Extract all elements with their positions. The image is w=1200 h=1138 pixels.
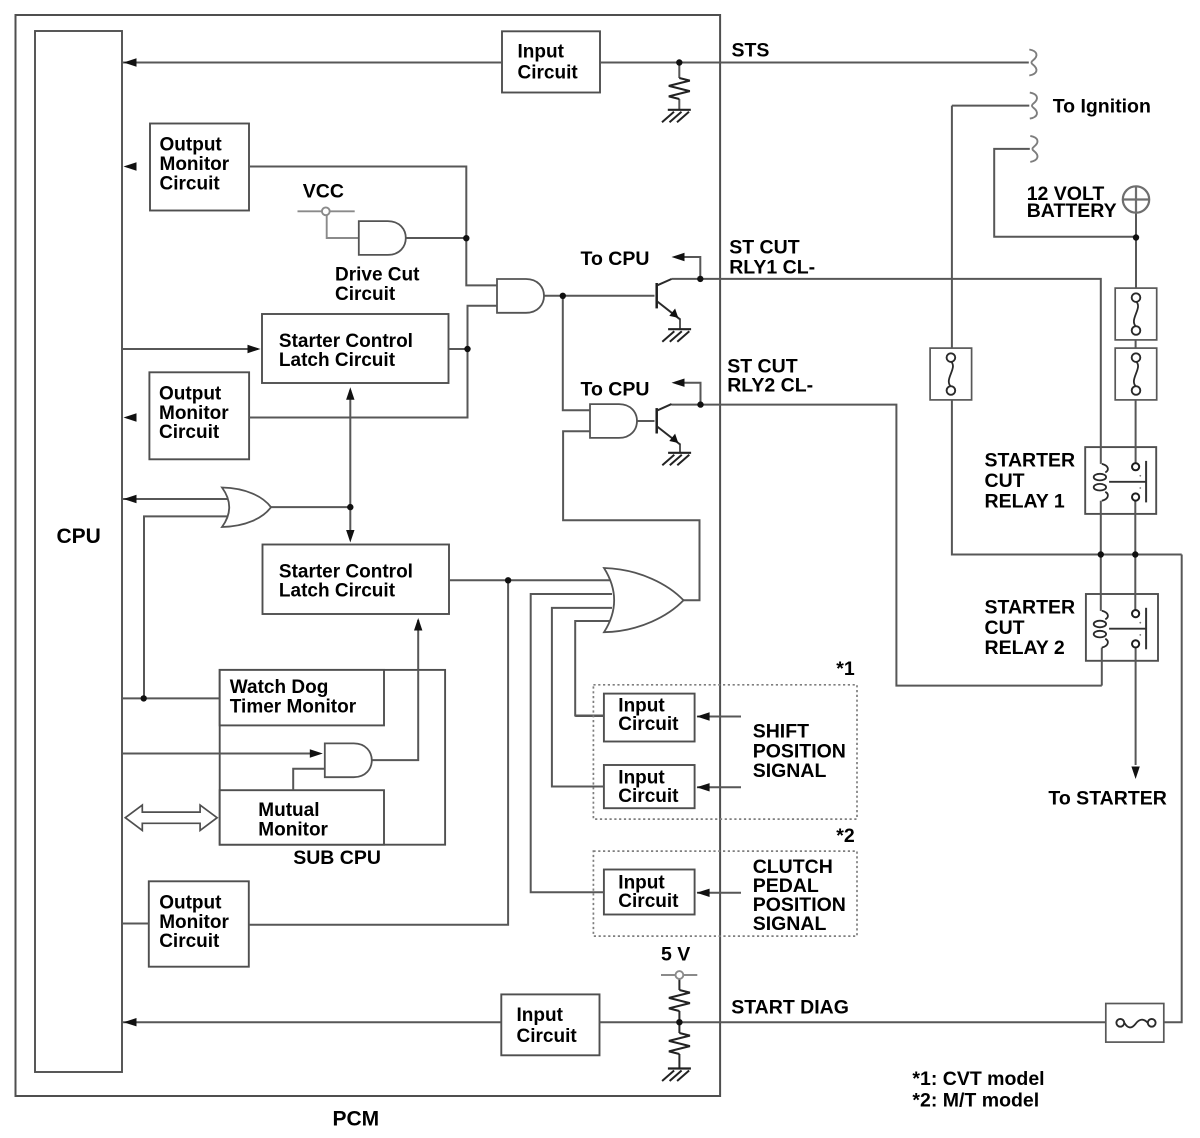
wire fuse to right edge riser (1152, 555, 1182, 1023)
wire battery to fuse stack (1135, 213, 1137, 463)
wire gate2 lower input bus (249, 306, 497, 418)
input circuit block (START DIAG, bottom) (501, 994, 599, 1055)
ground for R3 (662, 1069, 691, 1082)
svg-text:Circuit: Circuit (159, 931, 220, 952)
wire small OR output to latch junction (271, 506, 350, 508)
svg-text:To Ignition: To Ignition (1053, 96, 1151, 118)
svg-text:Timer Monitor: Timer Monitor (230, 696, 357, 717)
wire relay2 coil bottom continues (1101, 648, 1103, 686)
starter cut relay 2 box (1086, 594, 1158, 661)
arrowhead up into latch1 bottom (346, 387, 354, 400)
wire gate2 output to Q1 base (544, 295, 655, 297)
svg-text:Monitor: Monitor (159, 403, 229, 424)
arrowhead into input circuit B (697, 783, 710, 791)
output monitor circuit block 2 (149, 372, 249, 459)
svg-text:To CPU: To CPU (581, 379, 650, 401)
svg-text:SIGNAL: SIGNAL (753, 760, 827, 782)
wire AND4 output up into latch2 bottom (371, 620, 419, 760)
arrowhead down into latch2 top (346, 530, 354, 543)
svg-text:Circuit: Circuit (618, 786, 679, 807)
svg-text:Output: Output (159, 893, 222, 914)
wire relay2 contact to starter arrow (1135, 648, 1137, 765)
fuse F4 start diag (1106, 1004, 1164, 1043)
battery symbol 12V (1123, 186, 1149, 212)
AND gate U1 drive cut (359, 221, 406, 255)
svg-text:Circuit: Circuit (159, 422, 220, 443)
svg-text:*1: *1 (836, 658, 855, 680)
junction node AND1 out (463, 235, 469, 241)
svg-text:*2: *2 (836, 825, 855, 847)
wire OR input3 from shift input circuit B (552, 608, 612, 787)
arrowhead into input circuit A (697, 712, 710, 720)
wire AND1 output to junction (405, 237, 466, 239)
wire STS pulldown (678, 63, 680, 110)
svg-text:CUT: CUT (985, 617, 1025, 639)
svg-text:BATTERY: BATTERY (1027, 200, 1117, 222)
wire Q2 collector line ST CUT RLY2 CL- (672, 405, 1102, 686)
wire Q1 emitter to ground (679, 319, 681, 330)
bidirectional bus arrow CPU to SUB CPU (125, 805, 217, 830)
arrowhead into CPU from STS (124, 58, 137, 66)
starter cut relay 1 box (1085, 447, 1156, 514)
fuse F2 battery upper (1115, 288, 1157, 340)
arrowhead into input circuit C (697, 889, 710, 897)
wire Q2 to-CPU stub (678, 383, 701, 405)
wire OMC1 to vertical bus (249, 167, 497, 286)
junction node Q2 collector (697, 401, 703, 407)
AND gate U2 (497, 279, 544, 313)
5V terminal (676, 971, 684, 979)
ground for Q2 (662, 453, 691, 466)
arrowhead to CPU stub Q1 (672, 253, 685, 261)
VCC switch terminal (322, 207, 330, 215)
wire Q1 collector line ST CUT RLY1 CL- (672, 279, 1101, 464)
wire CPU to output monitor circuit 3 (122, 923, 149, 925)
transistor Q1 (657, 279, 680, 319)
dashed box MT model region (593, 851, 857, 936)
wire STS line from CPU to connector (123, 62, 1029, 64)
transistor Q2 (657, 404, 680, 444)
watch dog timer monitor block (220, 670, 384, 726)
OR gate U6 large (604, 568, 684, 632)
svg-text:Latch Circuit: Latch Circuit (279, 581, 396, 602)
wire clutch signal arrow C (697, 892, 741, 894)
wire junction up-arrow into latch1 bottom (349, 390, 351, 539)
CPU block (35, 31, 122, 1072)
svg-text:To CPU: To CPU (581, 248, 650, 270)
svg-text:Input: Input (517, 1005, 564, 1026)
SUB CPU enclosure (220, 670, 445, 845)
junction node watchdog (141, 695, 147, 701)
svg-text:Drive Cut: Drive Cut (335, 265, 420, 286)
svg-text:RLY1 CL-: RLY1 CL- (729, 257, 815, 279)
svg-text:Mutual: Mutual (258, 800, 319, 821)
svg-text:STS: STS (732, 40, 770, 62)
wire gate3 output to Q2 base (637, 420, 655, 422)
fuse F1 ignition (930, 348, 972, 400)
arrowhead to CPU stub Q2 (672, 379, 685, 387)
wire input circuit A left link (575, 715, 604, 717)
wire CPU arrow to starter control latch 1 (122, 348, 258, 350)
svg-text:CUT: CUT (985, 470, 1025, 492)
wire Q2 emitter to ground (679, 444, 681, 453)
svg-text:CPU: CPU (57, 525, 101, 548)
svg-text:RLY2 CL-: RLY2 CL- (727, 375, 813, 397)
resistor R1 STS pulldown (669, 78, 690, 99)
junction node rail coil (1098, 551, 1104, 557)
junction node start diag (676, 1019, 682, 1025)
wire mutual monitor to AND gate input (293, 769, 325, 791)
svg-text:RELAY 2: RELAY 2 (985, 637, 1065, 659)
wire battery branch from connector (994, 149, 1136, 237)
relay 1 internals coil and contact (1094, 461, 1146, 503)
relay 2 internals coil and contact (1094, 608, 1146, 650)
wire OR input1 bus down to OMC3 (249, 580, 508, 924)
wire small OR upper input to CPU (123, 498, 231, 500)
wire relay rail with relay drops (1101, 501, 1136, 611)
wire CPU to watchdog monitor (122, 697, 220, 699)
svg-text:Watch Dog: Watch Dog (230, 677, 329, 698)
junction node battery feed (1133, 234, 1139, 240)
svg-text:To STARTER: To STARTER (1048, 788, 1166, 810)
input circuit block B (shift position 2) (604, 765, 695, 808)
output monitor circuit block 1 (150, 124, 249, 211)
junction node STS (676, 59, 682, 65)
junction node gate2 out (560, 293, 566, 299)
svg-text:SIGNAL: SIGNAL (753, 913, 827, 935)
svg-text:Starter Control: Starter Control (279, 562, 413, 583)
svg-text:Circuit: Circuit (618, 714, 679, 735)
junction node OR input1 (505, 577, 511, 583)
mutual monitor block (220, 790, 384, 845)
wire VCC switch to AND1 input (327, 215, 359, 239)
svg-text:Input: Input (518, 42, 565, 63)
svg-text:Monitor: Monitor (160, 154, 230, 175)
svg-text:Latch Circuit: Latch Circuit (279, 350, 396, 371)
svg-text:SUB CPU: SUB CPU (293, 847, 381, 869)
svg-text:STARTER: STARTER (985, 450, 1076, 472)
svg-text:PCM: PCM (333, 1108, 380, 1131)
connector break battery branch (1030, 136, 1037, 162)
svg-text:Circuit: Circuit (518, 63, 579, 84)
arrowhead into CPU from OMC2 (124, 413, 137, 421)
junction node Q1 collector (697, 276, 703, 282)
svg-text:*1: CVT model: *1: CVT model (912, 1068, 1044, 1090)
svg-text:RELAY 1: RELAY 1 (985, 491, 1065, 513)
svg-text:Starter Control: Starter Control (279, 331, 413, 352)
svg-text:STARTER: STARTER (985, 597, 1076, 619)
ground for R1 (662, 110, 691, 123)
arrowhead up into latch2 bottom (414, 618, 422, 631)
input circuit block (STS, top) (502, 31, 600, 92)
wire OR input4 from shift input circuit A (575, 621, 612, 716)
starter control latch circuit block 1 (262, 314, 449, 383)
svg-text:Monitor: Monitor (258, 819, 328, 840)
output monitor circuit block 3 (149, 881, 249, 966)
wire latch2 output to OR input 1 (449, 579, 612, 581)
wire ignition feed down to fuse and rail (952, 106, 1182, 555)
OR gate U5 small (222, 488, 271, 528)
wire VCC terminal line right (330, 210, 355, 212)
AND gate U4 sub cpu (325, 743, 372, 777)
PCM enclosure box (16, 15, 721, 1096)
input circuit block A (shift position 1) (604, 694, 695, 742)
connector break STS (1029, 50, 1036, 76)
svg-text:POSITION: POSITION (753, 740, 846, 762)
svg-text:Output: Output (160, 135, 223, 156)
ground for Q1 (662, 329, 691, 342)
arrowhead down to starter (1131, 767, 1139, 780)
wire VCC terminal line left (298, 210, 323, 212)
junction node latch link (347, 504, 353, 510)
resistor R2 5V upper (669, 990, 690, 1011)
svg-text:Circuit: Circuit (517, 1026, 578, 1047)
arrowhead into CPU from OR gate (124, 495, 137, 503)
connector break to-ignition (1030, 93, 1037, 119)
svg-text:Circuit: Circuit (160, 173, 221, 194)
wire CPU arrow to sub-cpu AND gate (122, 753, 320, 755)
svg-text:Circuit: Circuit (618, 891, 679, 912)
junction node latch1 out (464, 346, 470, 352)
arrowhead into CPU from input circuit bottom (124, 1018, 137, 1026)
svg-text:START DIAG: START DIAG (731, 997, 849, 1019)
svg-text:ST CUT: ST CUT (729, 237, 800, 259)
svg-text:5 V: 5 V (661, 944, 690, 966)
input circuit block C (clutch pedal position) (604, 870, 695, 915)
svg-text:Monitor: Monitor (159, 912, 229, 933)
wire OR input2 from clutch input circuit (531, 594, 612, 892)
svg-text:SHIFT: SHIFT (753, 721, 809, 743)
arrowhead into AND4 (310, 749, 323, 757)
fuse F3 battery lower (1115, 348, 1157, 400)
wire shift signal arrow B (697, 786, 741, 788)
wire latch1 output to bus (449, 348, 468, 350)
starter control latch circuit block 2 (263, 545, 450, 615)
AND gate U3 (590, 404, 637, 438)
wire to-ignition line (952, 105, 1029, 107)
wire small OR lower input from watchdog node (144, 516, 231, 698)
wire gate2 output junction down to gate3 upper input (563, 296, 590, 410)
wire 5V pullup chain (661, 974, 697, 976)
svg-text:*2: M/T model: *2: M/T model (912, 1090, 1039, 1112)
wire shift signal arrow A (697, 716, 741, 718)
junction node rail contact (1132, 551, 1138, 557)
wire START DIAG line (123, 1021, 1120, 1023)
dashed box CVT model region (593, 685, 857, 819)
svg-text:Circuit: Circuit (335, 284, 396, 305)
wire Q1 to-CPU stub (678, 257, 700, 279)
svg-text:VCC: VCC (303, 181, 344, 203)
arrowhead into CPU from OMC1 (124, 162, 137, 170)
svg-text:Output: Output (159, 384, 222, 405)
resistor R3 5V lower (669, 1033, 690, 1054)
arrowhead into latch1 left (248, 345, 261, 353)
wire OR output loop to gate3 lower input (563, 431, 699, 600)
